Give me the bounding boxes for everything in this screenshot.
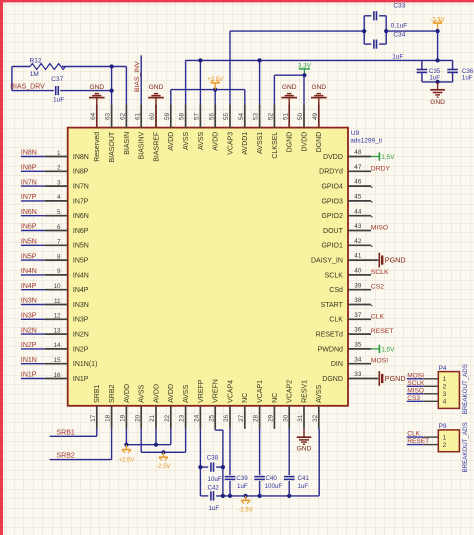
svg-text:2: 2 — [443, 384, 447, 391]
svg-text:31: 31 — [297, 414, 304, 422]
svg-text:8: 8 — [57, 253, 61, 260]
svg-text:25: 25 — [208, 414, 215, 422]
svg-text:IN1N: IN1N — [21, 357, 37, 364]
svg-text:DRDY: DRDY — [371, 165, 391, 172]
svg-text:AVSS: AVSS — [316, 384, 323, 402]
svg-text:48: 48 — [354, 149, 362, 156]
svg-text:2: 2 — [443, 442, 447, 449]
svg-text:VCAP4: VCAP4 — [227, 380, 234, 403]
svg-text:AVDD: AVDD — [168, 132, 175, 151]
svg-text:53: 53 — [253, 112, 260, 120]
svg-text:24: 24 — [194, 414, 201, 422]
svg-text:CSd: CSd — [329, 287, 343, 294]
svg-text:MISO: MISO — [407, 387, 424, 394]
svg-text:IN2P: IN2P — [73, 346, 89, 353]
svg-text:12: 12 — [53, 313, 61, 320]
svg-text:51: 51 — [282, 112, 289, 120]
svg-text:IN2N: IN2N — [21, 327, 37, 334]
svg-text:AVDD: AVDD — [124, 384, 131, 403]
svg-text:CS3: CS3 — [407, 395, 420, 402]
svg-text:SRB2: SRB2 — [57, 453, 75, 460]
svg-text:ads1299_ti: ads1299_ti — [350, 137, 382, 144]
svg-text:33: 33 — [354, 371, 362, 378]
svg-text:32: 32 — [312, 414, 319, 422]
svg-text:IN7N: IN7N — [21, 179, 37, 186]
svg-text:1uF: 1uF — [298, 483, 309, 490]
svg-text:C33: C33 — [393, 3, 405, 10]
svg-text:100uF: 100uF — [265, 483, 283, 490]
svg-text:IN7P: IN7P — [21, 194, 37, 201]
svg-text:54: 54 — [238, 112, 245, 120]
svg-text:DOUT: DOUT — [323, 228, 344, 235]
svg-text:46: 46 — [354, 179, 362, 186]
svg-text:1uF: 1uF — [462, 75, 473, 82]
svg-text:28: 28 — [253, 414, 260, 422]
svg-text:-2.5V: -2.5V — [156, 464, 170, 470]
svg-text:NC: NC — [272, 393, 279, 403]
svg-text:AVDD: AVDD — [153, 384, 160, 403]
svg-text:IN2P: IN2P — [21, 342, 37, 349]
svg-text:IN8N: IN8N — [73, 154, 89, 161]
svg-text:13: 13 — [53, 327, 61, 334]
svg-text:15: 15 — [53, 357, 61, 364]
svg-text:IN5P: IN5P — [73, 258, 89, 265]
svg-text:DRDYd: DRDYd — [319, 169, 343, 176]
svg-text:GND: GND — [311, 84, 326, 91]
svg-text:CLK: CLK — [371, 313, 385, 320]
svg-text:SCLK: SCLK — [325, 272, 344, 279]
svg-text:23: 23 — [179, 414, 186, 422]
svg-text:IN5P: IN5P — [21, 253, 37, 260]
svg-text:BREAKOUT_ADS: BREAKOUT_ADS — [462, 422, 469, 472]
svg-text:GND: GND — [297, 446, 312, 453]
svg-text:39: 39 — [354, 282, 362, 289]
svg-text:4: 4 — [57, 194, 61, 201]
svg-text:IN3N: IN3N — [21, 298, 37, 305]
svg-text:AVDD: AVDD — [168, 384, 175, 403]
svg-text:AVSS1: AVSS1 — [257, 132, 264, 154]
svg-text:AVDD: AVDD — [213, 132, 220, 151]
svg-text:IN1P: IN1P — [21, 372, 37, 379]
svg-text:IN1N(1): IN1N(1) — [73, 361, 98, 368]
svg-text:MOSI: MOSI — [371, 358, 388, 365]
svg-text:GPIO2: GPIO2 — [321, 213, 343, 220]
svg-text:C40: C40 — [266, 475, 278, 482]
svg-text:C34: C34 — [393, 32, 405, 39]
svg-text:BREAKOUT_ADS: BREAKOUT_ADS — [462, 364, 469, 414]
svg-text:IN6P: IN6P — [21, 224, 37, 231]
svg-text:AVDD1: AVDD1 — [242, 132, 249, 155]
svg-text:64: 64 — [90, 112, 97, 120]
svg-text:R12: R12 — [30, 58, 42, 65]
svg-text:VCAP1: VCAP1 — [257, 380, 264, 403]
svg-text:56: 56 — [208, 112, 215, 120]
svg-text:63: 63 — [105, 112, 112, 120]
svg-text:IN3P: IN3P — [21, 313, 37, 320]
svg-text:VREFP: VREFP — [198, 379, 205, 403]
svg-text:CS2: CS2 — [371, 284, 384, 291]
svg-text:DGND: DGND — [287, 132, 294, 153]
svg-text:SRB1: SRB1 — [57, 429, 75, 436]
svg-text:57: 57 — [194, 112, 201, 120]
svg-text:IN6N: IN6N — [73, 213, 89, 220]
svg-text:20: 20 — [134, 414, 141, 422]
svg-text:AVSS: AVSS — [198, 131, 205, 149]
svg-text:C41: C41 — [298, 475, 310, 482]
svg-text:IN5N: IN5N — [21, 239, 37, 246]
svg-text:GND: GND — [282, 84, 297, 91]
svg-text:IN8N: IN8N — [21, 150, 37, 157]
svg-text:36: 36 — [354, 327, 362, 334]
svg-text:47: 47 — [354, 164, 362, 171]
svg-text:START: START — [321, 302, 344, 309]
svg-text:P4: P4 — [439, 365, 447, 372]
svg-text:BIAS_DRV: BIAS_DRV — [10, 84, 45, 91]
svg-text:VCAP3: VCAP3 — [227, 132, 234, 155]
svg-text:DIN: DIN — [331, 361, 343, 368]
svg-text:VCAP2: VCAP2 — [287, 380, 294, 403]
svg-text:SRB1: SRB1 — [94, 385, 101, 403]
svg-text:IN7P: IN7P — [73, 198, 89, 205]
svg-text:C38: C38 — [207, 455, 219, 462]
svg-text:SCLK: SCLK — [371, 269, 389, 276]
svg-text:IN4P: IN4P — [21, 283, 37, 290]
svg-text:4: 4 — [443, 399, 447, 406]
svg-text:1uF: 1uF — [53, 96, 64, 103]
svg-text:3: 3 — [443, 391, 447, 398]
svg-text:P9: P9 — [439, 423, 447, 430]
svg-text:AVSS: AVSS — [183, 384, 190, 402]
svg-text:27: 27 — [238, 414, 245, 422]
svg-text:IN8P: IN8P — [73, 169, 89, 176]
svg-text:40: 40 — [354, 268, 362, 275]
svg-text:1.5V: 1.5V — [381, 154, 395, 161]
svg-text:BIASIN: BIASIN — [124, 132, 131, 155]
svg-text:AVSS: AVSS — [183, 131, 190, 149]
svg-text:1uF: 1uF — [429, 75, 440, 82]
svg-text:14: 14 — [53, 342, 61, 349]
svg-text:18: 18 — [105, 414, 112, 422]
svg-text:PWDNd: PWDNd — [318, 346, 343, 353]
svg-text:44: 44 — [354, 208, 362, 215]
svg-text:NC: NC — [242, 393, 249, 403]
svg-text:PGND: PGND — [385, 374, 406, 383]
svg-text:26: 26 — [223, 414, 230, 422]
svg-text:22: 22 — [164, 414, 171, 422]
svg-text:10: 10 — [53, 283, 61, 290]
svg-text:GPIO3: GPIO3 — [321, 198, 343, 205]
svg-text:-2.5V: -2.5V — [430, 17, 444, 23]
svg-text:50: 50 — [297, 112, 304, 120]
svg-text:60: 60 — [149, 112, 156, 120]
svg-text:BIAS_INV: BIAS_INV — [134, 61, 141, 92]
svg-text:2: 2 — [57, 165, 61, 172]
svg-text:CLKSEL: CLKSEL — [272, 132, 279, 159]
svg-text:-2.5V: -2.5V — [238, 508, 252, 514]
svg-text:IN8P: IN8P — [21, 165, 37, 172]
svg-text:0.1uF: 0.1uF — [391, 23, 408, 30]
svg-text:BIASOUT: BIASOUT — [109, 131, 116, 162]
svg-text:RESV1: RESV1 — [301, 380, 308, 403]
svg-text:AVSS: AVSS — [139, 384, 146, 402]
svg-text:1: 1 — [443, 435, 447, 442]
svg-text:59: 59 — [164, 112, 171, 120]
svg-text:1uF: 1uF — [392, 53, 403, 60]
svg-text:1M: 1M — [30, 71, 39, 78]
svg-text:C42: C42 — [208, 484, 220, 491]
svg-text:+2.5V: +2.5V — [118, 458, 134, 464]
svg-text:IN4N: IN4N — [21, 268, 37, 275]
svg-text:5: 5 — [57, 209, 61, 216]
svg-text:IN3P: IN3P — [73, 317, 89, 324]
svg-text:SRB2: SRB2 — [109, 385, 116, 403]
svg-text:GPIO1: GPIO1 — [321, 243, 343, 250]
svg-text:41: 41 — [354, 253, 362, 260]
svg-text:21: 21 — [149, 414, 156, 422]
svg-text:IN3N: IN3N — [73, 302, 89, 309]
svg-text:43: 43 — [354, 223, 362, 230]
svg-text:17: 17 — [90, 414, 97, 422]
svg-text:7: 7 — [57, 239, 61, 246]
svg-text:IN4N: IN4N — [73, 272, 89, 279]
svg-text:CLK: CLK — [329, 317, 343, 324]
svg-text:1: 1 — [443, 376, 447, 383]
svg-text:35: 35 — [354, 342, 362, 349]
svg-text:IN2N: IN2N — [73, 332, 89, 339]
svg-text:RESET: RESET — [407, 438, 429, 445]
svg-text:BIASREF: BIASREF — [153, 132, 160, 162]
svg-text:IN6N: IN6N — [21, 209, 37, 216]
svg-text:16: 16 — [53, 372, 61, 379]
svg-text:+2.5V: +2.5V — [207, 77, 223, 83]
svg-text:1uF: 1uF — [237, 483, 248, 490]
svg-text:VREFN: VREFN — [213, 379, 220, 403]
svg-text:RESETd: RESETd — [316, 332, 343, 339]
svg-text:BIASINV: BIASINV — [139, 131, 146, 159]
svg-text:62: 62 — [120, 112, 127, 120]
svg-text:PGND: PGND — [385, 256, 406, 265]
svg-text:IN5N: IN5N — [73, 243, 89, 250]
svg-text:19: 19 — [120, 414, 127, 422]
svg-text:IN4P: IN4P — [73, 287, 89, 294]
svg-text:1uF: 1uF — [209, 505, 220, 512]
svg-text:DVDD: DVDD — [323, 154, 343, 161]
svg-text:DGND: DGND — [322, 376, 343, 383]
svg-text:11: 11 — [54, 298, 61, 305]
svg-text:IN6P: IN6P — [73, 228, 89, 235]
svg-text:45: 45 — [354, 194, 362, 201]
svg-text:MOSI: MOSI — [407, 372, 424, 379]
svg-text:IN7N: IN7N — [73, 184, 89, 191]
svg-text:34: 34 — [354, 356, 362, 363]
svg-text:38: 38 — [354, 297, 362, 304]
svg-text:C37: C37 — [51, 76, 63, 83]
svg-text:1: 1 — [57, 150, 61, 157]
svg-text:49: 49 — [312, 112, 319, 120]
svg-text:1.5V: 1.5V — [381, 346, 395, 353]
svg-text:37: 37 — [354, 312, 362, 319]
svg-text:CLK: CLK — [407, 431, 420, 438]
svg-text:SCLK: SCLK — [407, 380, 425, 387]
svg-text:U9: U9 — [351, 130, 360, 137]
svg-text:GPIO4: GPIO4 — [321, 184, 343, 191]
svg-text:C39: C39 — [236, 475, 248, 482]
svg-text:GND: GND — [149, 84, 164, 91]
svg-text:9: 9 — [57, 268, 61, 275]
svg-text:58: 58 — [179, 112, 186, 120]
svg-text:55: 55 — [223, 112, 230, 120]
svg-text:42: 42 — [354, 238, 362, 245]
svg-text:29: 29 — [268, 414, 275, 422]
svg-text:DVDD: DVDD — [301, 132, 308, 152]
svg-text:Reserved: Reserved — [94, 132, 101, 162]
svg-text:IN1P: IN1P — [73, 376, 89, 383]
svg-text:3: 3 — [57, 179, 61, 186]
svg-text:DGND: DGND — [316, 132, 323, 153]
svg-text:MISO: MISO — [371, 225, 388, 232]
svg-text:6: 6 — [57, 224, 61, 231]
svg-text:DAISY_IN: DAISY_IN — [311, 258, 343, 265]
svg-text:30: 30 — [282, 414, 289, 422]
svg-text:52: 52 — [268, 112, 275, 120]
svg-text:GND: GND — [430, 99, 445, 106]
svg-text:61: 61 — [134, 112, 141, 120]
svg-text:RESET: RESET — [371, 328, 394, 335]
svg-text:10uF: 10uF — [208, 476, 222, 483]
